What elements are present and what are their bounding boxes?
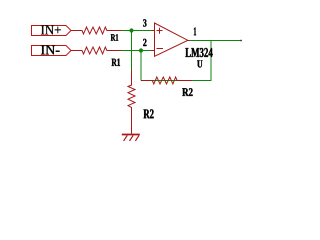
node B junction dot	[139, 48, 143, 52]
label R2 vertical	[144, 109, 154, 118]
resistor R2 vertical	[128, 70, 135, 134]
resistor R1 bottom	[71, 47, 122, 54]
label LM324	[185, 48, 212, 57]
wire node B down to feedback	[140, 51, 142, 81]
label R1 bottom	[112, 59, 120, 66]
pin 1 stub	[188, 40, 191, 42]
node A junction dot	[129, 28, 133, 32]
wire feedback net (under R2)	[141, 41, 211, 81]
minus input mark	[157, 48, 164, 50]
wire end tick	[240, 40, 242, 42]
resistor R1 top	[71, 27, 122, 34]
port IN-	[32, 46, 72, 56]
plus input mark	[157, 30, 163, 32]
pin 3 stub	[152, 30, 155, 32]
wire node A down to R2	[131, 31, 133, 71]
pin 2 stub	[151, 50, 155, 52]
wire top net to op-amp	[122, 30, 152, 32]
port IN+	[32, 26, 72, 36]
wire output	[190, 40, 242, 42]
label R1 top	[111, 34, 118, 40]
label R2 feedback	[182, 88, 192, 96]
pin number 2	[143, 39, 146, 46]
op-amp U LM324	[151, 23, 190, 56]
wire bottom net to op-amp	[122, 50, 152, 52]
pin number 1	[194, 28, 196, 36]
ground	[122, 135, 140, 141]
pin number 3	[143, 19, 146, 26]
designator U	[197, 60, 202, 67]
resistor R2 feedback	[141, 77, 192, 84]
